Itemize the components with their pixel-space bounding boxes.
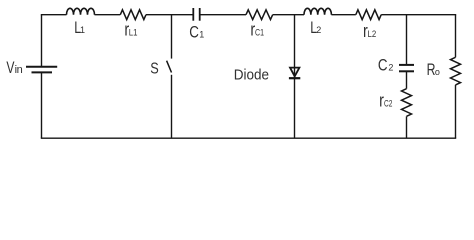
svg-text:2: 2 [316, 25, 321, 35]
svg-text:S: S [150, 61, 159, 78]
svg-text:V: V [6, 59, 14, 77]
svg-text:C2: C2 [384, 98, 392, 108]
svg-text:C: C [378, 57, 388, 75]
svg-text:o: o [435, 67, 440, 77]
svg-text:L2: L2 [368, 29, 377, 39]
svg-text:L1: L1 [129, 28, 138, 38]
svg-text:C1: C1 [255, 28, 264, 38]
svg-text:in: in [15, 64, 23, 76]
svg-text:Diode: Diode [234, 66, 269, 83]
svg-text:1: 1 [199, 30, 204, 40]
svg-text:1: 1 [80, 25, 85, 35]
svg-text:C: C [189, 24, 199, 42]
svg-text:2: 2 [388, 63, 393, 73]
